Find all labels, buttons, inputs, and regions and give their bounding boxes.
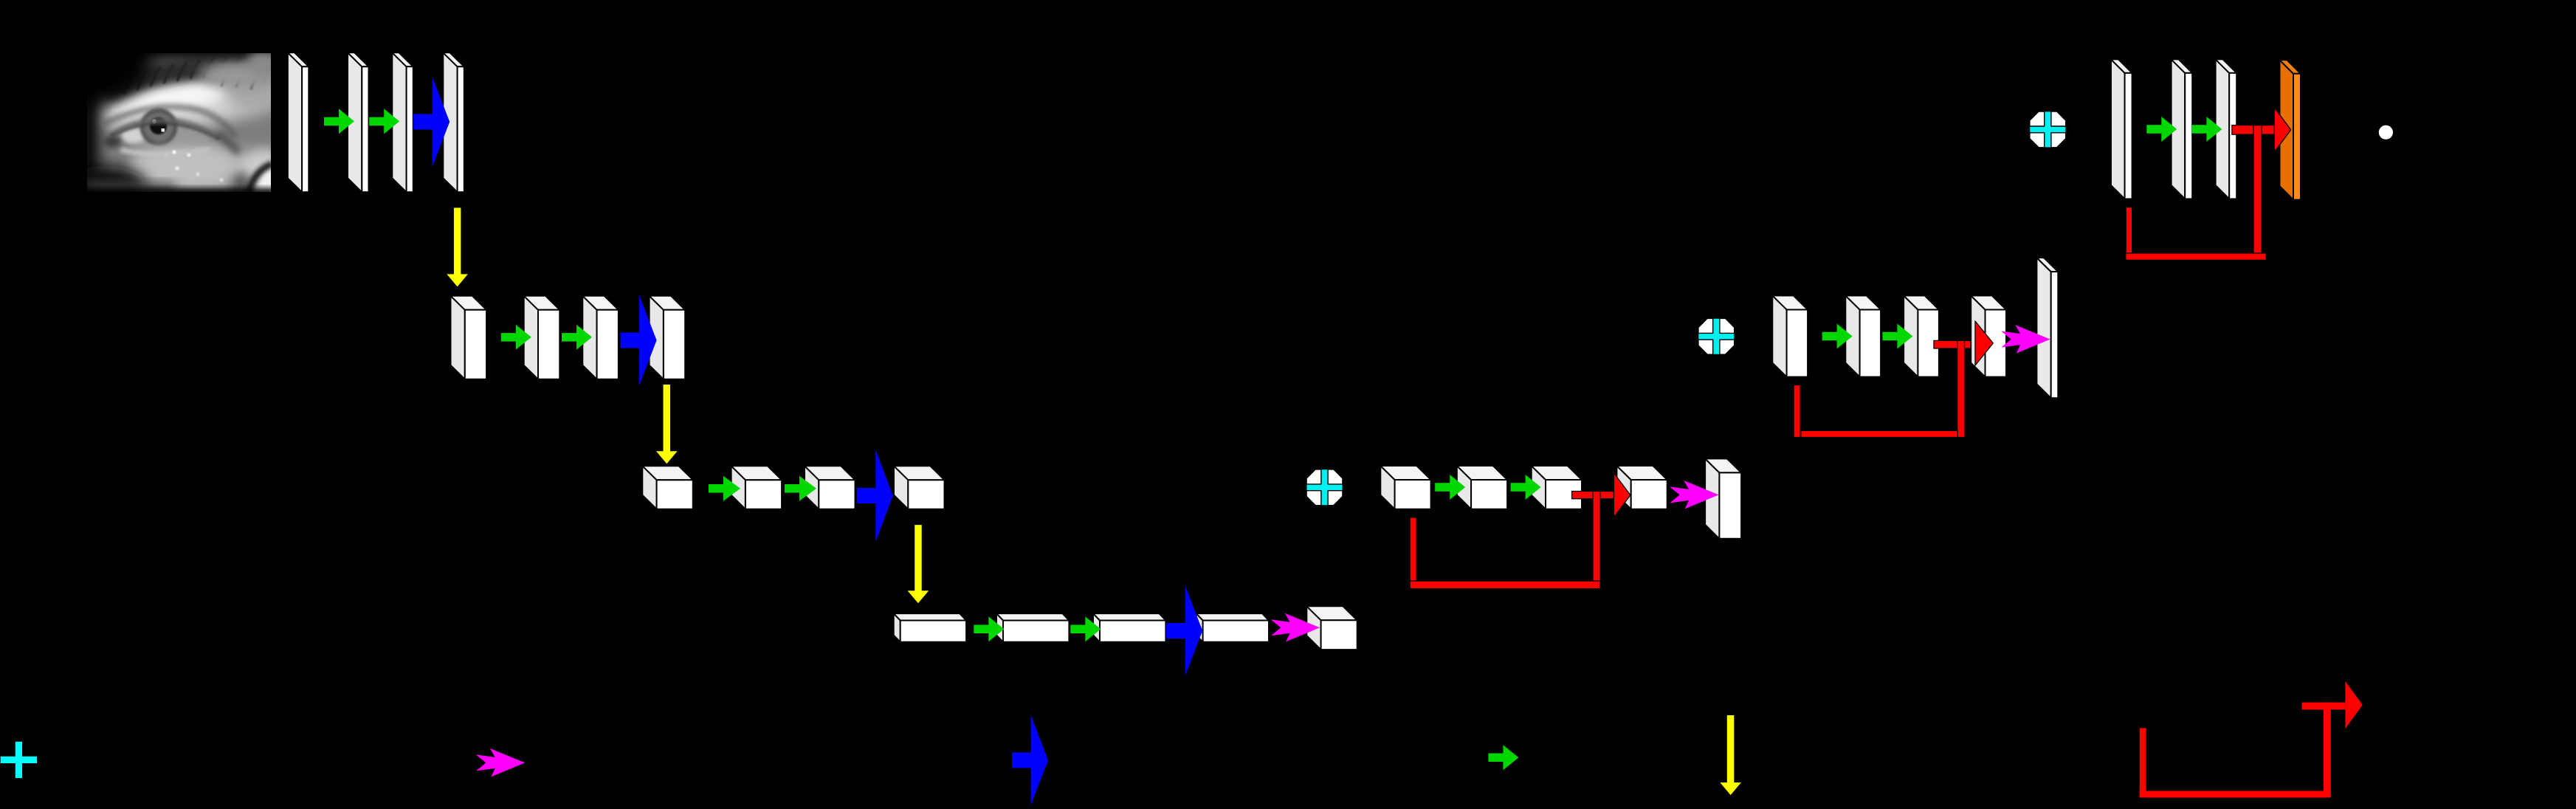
upsample magenta arrow dec2: [2001, 325, 2050, 354]
conv arrow dec3-b: [1511, 475, 1541, 500]
maxpool yellow arrow 1: [447, 208, 468, 287]
conv cube enc3-1: [642, 466, 693, 509]
conv cube enc3-3: [805, 466, 855, 509]
conv cube dec3-1: [1380, 466, 1430, 509]
concat oplus dec3: [1306, 469, 1343, 506]
conv slab enc1-3: [392, 52, 413, 192]
conv slab dec2-4: [1971, 296, 2006, 377]
output white dot: [2379, 125, 2393, 140]
residual red arrowhead dec2: [1975, 321, 1993, 365]
conv arrow bott-a: [974, 616, 1004, 641]
upsampled slab dec2-out: [2036, 258, 2058, 398]
conv arrow enc3-b: [785, 476, 816, 501]
residual connector dec1: [2232, 125, 2275, 135]
conv box bott-1: [894, 613, 966, 642]
residual left leg dec3: [1410, 517, 1416, 589]
conv slab dec1-1: [2111, 59, 2132, 199]
feature slab enc2-4: [650, 296, 686, 379]
conv slab enc1-1: [288, 52, 309, 192]
conv slab enc2-1: [451, 296, 487, 379]
upsampled cube bott-out: [1306, 606, 1357, 650]
conv arrow dec2-b: [1882, 324, 1912, 349]
conv arrow bott-b: [1070, 616, 1101, 641]
conv box bott-2: [996, 613, 1069, 642]
downsample blue arrow enc1: [413, 77, 450, 167]
conv cube enc3-2: [731, 466, 782, 509]
residual bottom bar dec2: [1801, 430, 1957, 437]
conv slab dec1-2: [2172, 59, 2193, 199]
conv arrow enc2-b: [562, 325, 592, 350]
residual connector dec3: [1572, 492, 1614, 499]
residual left leg dec2: [1794, 385, 1800, 438]
conv arrow enc1-a: [324, 109, 354, 134]
residual riser dec2: [1957, 340, 1965, 437]
legend residual red arrowhead: [2345, 681, 2362, 729]
residual red arrowhead dec3: [1614, 473, 1630, 517]
concat oplus dec2: [1698, 318, 1735, 354]
upsample magenta arrow dec3: [1670, 481, 1719, 509]
residual left leg dec1: [2126, 207, 2132, 261]
residual riser dec3: [1593, 492, 1600, 589]
residual bottom bar dec1: [2126, 253, 2266, 261]
feature cube enc3-4: [894, 466, 945, 509]
conv box bott-3: [1093, 613, 1165, 642]
legend downsample blue arrow: [1012, 715, 1048, 805]
downsample blue arrow bott: [1166, 586, 1202, 676]
conv arrow enc3-a: [709, 476, 740, 501]
feature slab enc1-4: [443, 52, 464, 192]
legend residual connector: [2302, 703, 2346, 710]
conv cube dec3-2: [1457, 466, 1507, 509]
concat oplus dec1: [2030, 111, 2066, 148]
residual connector dec2: [1934, 340, 1975, 348]
conv arrow dec1-b: [2191, 117, 2222, 142]
legend maxpool yellow arrow: [1720, 715, 1741, 795]
output orange slab: [2280, 60, 2301, 199]
upsampled slab dec3-out: [1705, 458, 1741, 538]
conv slab dec2-1: [1772, 296, 1808, 377]
conv slab enc2-3: [582, 296, 619, 379]
conv slab dec2-2: [1845, 296, 1881, 377]
maxpool yellow arrow 3: [908, 525, 929, 603]
residual bottom bar dec3: [1410, 581, 1600, 589]
maxpool yellow arrow 2: [656, 385, 678, 464]
residual riser dec1: [2253, 125, 2262, 261]
conv cube dec3-4: [1616, 466, 1667, 509]
conv arrow dec1-a: [2146, 117, 2177, 142]
legend conv green arrow: [1489, 745, 1519, 770]
legend residual left leg: [2140, 728, 2146, 797]
conv cube dec3-3: [1532, 466, 1582, 509]
upsample magenta arrow bott: [1271, 613, 1320, 642]
legend upsample magenta arrow: [476, 748, 526, 777]
conv slab enc2-2: [524, 296, 560, 379]
feature box bott-4: [1196, 613, 1269, 642]
residual red arrowhead dec1: [2274, 108, 2290, 152]
legend residual bottom bar: [2140, 791, 2331, 798]
downsample blue arrow enc2: [621, 295, 657, 385]
legend residual riser: [2324, 703, 2331, 798]
conv slab dec1-3: [2216, 59, 2237, 199]
downsample blue arrow enc3: [857, 450, 893, 542]
legend concat plus: [1, 742, 37, 778]
conv arrow dec3-a: [1435, 475, 1465, 500]
conv arrow enc1-b: [369, 109, 399, 134]
conv slab dec2-3: [1904, 296, 1939, 377]
conv arrow dec2-a: [1822, 324, 1853, 349]
input eye image: [16, 4, 293, 210]
conv arrow enc2-a: [501, 325, 531, 350]
conv slab enc1-2: [348, 52, 369, 192]
